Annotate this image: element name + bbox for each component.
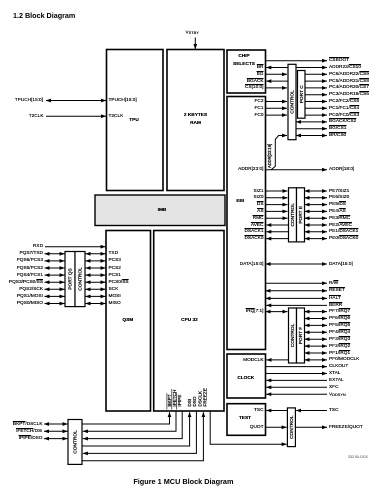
block label CHIP — [238, 54, 249, 59]
wire VDDSYN — [266, 393, 327, 395]
wire DSACK0 into EBI — [266, 238, 288, 240]
wire PC0/FC0/CS3 — [305, 114, 327, 116]
port QS control box — [75, 252, 85, 307]
svg-text:FREEZE: FREEZE — [203, 388, 208, 407]
pin SCK internal — [109, 287, 119, 292]
svg-text:IPIPE: IPIPE — [177, 395, 182, 407]
wire PC6/ADDR22/CS9 — [305, 73, 327, 75]
pin IRQ[7:1] — [246, 309, 264, 314]
pin FC2 — [255, 99, 264, 104]
wire MISO port-QSM — [86, 303, 106, 305]
wire TSC into test block — [266, 410, 287, 412]
svg-text:CONTROL: CONTROL — [290, 323, 296, 347]
svg-text:CONTROL: CONTROL — [78, 267, 84, 291]
wire PF4/IRQ4 — [305, 331, 328, 333]
wire VSTBY to RAM — [194, 38, 196, 50]
svg-text:DSCLK: DSCLK — [197, 390, 202, 407]
wire PC4/ADDR20/CS7 — [305, 87, 327, 89]
wire R/W — [266, 282, 328, 284]
wire FC0 to control — [266, 114, 288, 116]
port C control box — [288, 64, 296, 139]
pin PQS5/PCS2 external — [17, 266, 43, 271]
pin T2CLK internal — [109, 114, 124, 119]
pin BR/CS0 — [329, 133, 346, 138]
wire IPIPE — [83, 411, 182, 439]
overbar IPIPE pin — [176, 392, 178, 409]
wire SIZ1 to port E control — [266, 190, 288, 192]
pin ADDR[18:0] — [329, 167, 354, 172]
drawing id 332 BLOCK — [348, 455, 368, 459]
wire PC2/FC2/CS5 — [305, 101, 327, 103]
wire QUOT to control — [266, 426, 287, 428]
pin BG/CS1 — [329, 126, 346, 131]
pin PE7/SIZ1 — [329, 189, 349, 194]
pin EXTAL — [329, 378, 344, 383]
pin PC3/ADDR19/CS6 — [329, 92, 369, 97]
RAM block — [167, 50, 224, 191]
wire MODCLK into clock — [267, 359, 289, 361]
pin RXD — [33, 244, 43, 249]
svg-text:CONTROL: CONTROL — [290, 203, 296, 227]
pin CLKOUT — [329, 364, 348, 369]
pin DATA[15:0] external — [329, 262, 353, 267]
block label RAM — [190, 121, 201, 126]
pin QUOT internal — [250, 425, 264, 430]
pin BGACK/CS2 — [329, 119, 356, 124]
pin SIZ0 — [253, 195, 263, 200]
pin PE2/AVEC — [329, 223, 352, 228]
block label EBI — [236, 199, 244, 204]
title 1.2 Block Diagram — [13, 12, 75, 20]
wire EXTAL — [266, 379, 327, 381]
pin PF1/IRQ1 — [329, 351, 350, 356]
svg-text:PORT C: PORT C — [299, 85, 305, 103]
pin BKPT/DSCLK external — [13, 422, 43, 427]
pin PC6/ADDR22/CS9 — [329, 72, 369, 77]
wire SIZ0 to port E control — [266, 197, 288, 199]
wire PF1/IRQ1 — [305, 352, 328, 354]
pin PQS7/TXD external — [20, 251, 44, 256]
pin R/W — [329, 281, 338, 286]
block label IMB — [158, 208, 167, 213]
wire PCS3 pad-port — [45, 260, 65, 262]
wire SCK pad-port — [45, 288, 65, 290]
pin CSBOOT — [329, 58, 349, 63]
wire PC3/ADDR19/CS6 — [305, 94, 327, 96]
wire RMC to port E control — [266, 217, 288, 219]
pin PF2/IRQ2 — [329, 344, 350, 349]
pin PF0/MODCLK — [329, 357, 359, 362]
wire PE0/DSACK0 — [305, 238, 328, 240]
svg-text:CONTROL: CONTROL — [289, 415, 295, 439]
pin VSTBY — [186, 30, 199, 35]
wire FREEZE to test control — [210, 411, 286, 444]
pin PCS3 internal — [109, 258, 121, 263]
pin PE3/RMC — [329, 216, 350, 221]
wire ADDR[18:0] — [266, 169, 328, 171]
QSM block — [106, 231, 151, 412]
pin TPUCH[15:0] internal — [109, 98, 137, 103]
pin PE0/DSACK0 — [329, 236, 358, 241]
pin VDDSYN — [329, 392, 346, 397]
wire DS to port E control — [266, 204, 288, 206]
wire IFETCH/DSI — [44, 430, 68, 432]
wire DATA[15:0] — [266, 263, 328, 265]
pin PC5/ADDR21/CS8 — [329, 79, 369, 84]
pin TXD internal — [109, 251, 119, 256]
wire TXD pad-port — [45, 253, 65, 255]
PORT F box — [297, 308, 305, 363]
block label TPU — [129, 118, 139, 123]
test control box — [287, 408, 295, 447]
wire RESET — [266, 290, 328, 292]
wire ADDR23/CS10 — [296, 67, 327, 69]
wire DSI — [82, 412, 190, 446]
wire PF0/MODCLK — [305, 359, 328, 361]
wire CSBOOT — [266, 60, 328, 62]
wire ADDR[23:19] bus to port C control — [271, 136, 287, 170]
wire TPUCH[15:0] — [46, 100, 106, 102]
pin PE5/DS — [329, 202, 346, 207]
wire PE6/SIZ0 — [305, 197, 328, 199]
wire PC5/ADDR21/CS8 — [305, 80, 327, 82]
wire PC1/FC1/CS4 — [305, 107, 327, 109]
pin PQS6/PCS3 external — [17, 258, 43, 263]
pin BERR — [329, 303, 342, 308]
pin RMC — [253, 216, 264, 221]
pin MODCLK internal — [243, 358, 263, 363]
pin PQS1/MOSI external — [17, 294, 43, 299]
wire CS[10:0] to control — [266, 87, 288, 89]
wire IRQ[7:1] to port F control — [266, 311, 288, 313]
pin BR — [257, 65, 264, 70]
pin PF5/IRQ5 — [329, 323, 350, 328]
IMB bus bar — [95, 195, 225, 226]
wire PCS2 pad-port — [45, 267, 65, 269]
pin T2CLK external — [29, 114, 44, 119]
wire BG to control — [266, 73, 288, 75]
pin DS — [257, 202, 264, 207]
pin PF6/IRQ6 — [329, 316, 350, 321]
wire PE7/SIZ1 — [305, 190, 328, 192]
pin PE1/DSACK1 — [329, 229, 358, 234]
block label CLOCK — [237, 376, 254, 381]
pin PE6/SIZ0 — [329, 195, 349, 200]
pin MOSI internal — [109, 294, 121, 299]
wire FREEZE/QUOT — [295, 426, 327, 428]
pin DATA[15:0] internal — [240, 262, 264, 267]
wire IFETCH — [83, 411, 176, 431]
pin ADDR23/CS10 — [329, 65, 361, 70]
port F control box — [289, 308, 297, 363]
wire SCK port-QSM — [86, 288, 106, 290]
block label SELECTS — [233, 62, 255, 67]
wire FC1 to control — [266, 107, 288, 109]
pin PQS4/PCS1 external — [17, 273, 43, 278]
pin PCS2 internal — [109, 266, 121, 271]
wire BKPT/DSCLK — [44, 423, 68, 425]
svg-text:CONTROL: CONTROL — [73, 430, 79, 454]
wire XFC — [266, 386, 327, 388]
PORT C box — [298, 71, 306, 119]
wire PF3/IRQ3 — [305, 338, 328, 340]
overbar IFETCH pin — [171, 389, 173, 410]
BDM control box — [68, 420, 82, 465]
wire IPIPE/DSO — [44, 438, 68, 440]
wire PCS2 port-QSM — [86, 267, 106, 269]
svg-text:ADDR[23:19]: ADDR[23:19] — [267, 144, 272, 168]
wire PCS0/SS port-QSM — [86, 281, 106, 283]
pin PF3/IRQ3 — [329, 337, 350, 342]
CPU32 block — [154, 231, 224, 412]
pin MISO internal — [109, 301, 121, 306]
pin DSACK1 — [244, 229, 263, 234]
pin XFC — [329, 385, 339, 390]
svg-text:PORT F: PORT F — [298, 327, 304, 344]
TPU block — [107, 50, 164, 191]
wire PF5/IRQ5 — [305, 324, 328, 326]
wire MOSI port-QSM — [86, 295, 106, 297]
pin AVEC — [251, 223, 264, 228]
wire AS to port E control — [266, 210, 288, 212]
pin TPUCH[15:0] external — [15, 98, 43, 103]
wire BGACK into chip selects — [266, 80, 288, 82]
wire PCS3 port-QSM — [86, 260, 106, 262]
pin PQS3/PCS0/SS external — [9, 280, 43, 285]
wire PE4/AS — [305, 210, 328, 212]
wire BR/CS0 — [296, 135, 327, 137]
pin DSACK0 — [244, 236, 263, 241]
wire DSACK1 into EBI — [266, 231, 288, 233]
wire AVEC into EBI — [266, 224, 288, 226]
pin FREEZE/QUOT — [329, 425, 363, 430]
pin BGACK — [247, 79, 264, 84]
wire MISO pad-port — [45, 303, 65, 305]
wire RXD — [45, 246, 106, 248]
pin PF4/IRQ4 — [329, 330, 350, 335]
wire PCS1 pad-port — [45, 274, 65, 276]
pin HALT — [329, 296, 341, 301]
wire BG/CS1 — [296, 128, 327, 130]
wire PF2/IRQ2 — [305, 345, 328, 347]
pin PC4/ADDR20/CS7 — [329, 85, 369, 90]
wire BKPT — [82, 412, 170, 424]
wire PE5/DS — [305, 204, 328, 206]
pin TSC internal — [254, 408, 264, 413]
wire TXD port-QSM — [86, 253, 106, 255]
wire PF7/IRQ7 — [305, 311, 328, 313]
wire PCS0/SS pad-port — [45, 281, 65, 283]
block label 2 KBYTES — [184, 113, 207, 118]
EBI block — [227, 97, 266, 350]
pin PCS0/SS internal — [109, 280, 129, 285]
wire CLKOUT — [266, 366, 328, 368]
port E control box — [289, 188, 297, 242]
wire DSCLK — [82, 412, 203, 461]
pin PF7/IRQ7 — [329, 309, 350, 314]
wire BGACK/CS2 — [296, 121, 327, 123]
pin PE4/AS — [329, 209, 346, 214]
PORT QS box — [65, 252, 75, 307]
CHIP SELECTS block — [227, 50, 266, 93]
TEST block — [227, 404, 266, 436]
pin PQS2/SCK external — [19, 287, 43, 292]
pin BG — [257, 72, 264, 77]
block label QSM — [122, 318, 133, 323]
pin AS — [257, 209, 263, 214]
CLOCK block — [227, 354, 266, 398]
overbar BKPT pin — [166, 393, 168, 409]
pin IFETCH/DSI external — [16, 429, 42, 434]
pin PC2/FC2/CS5 — [329, 99, 359, 104]
wire BR into chip selects — [266, 67, 288, 69]
wire T2CLK — [46, 115, 106, 117]
wire PE1/DSACK1 — [305, 231, 328, 233]
wire FC2 to control — [266, 101, 288, 103]
svg-text:PORT E: PORT E — [298, 206, 304, 224]
block label CPU 32 — [181, 318, 198, 323]
wire TSC external — [296, 410, 327, 412]
svg-text:CONTROL: CONTROL — [290, 90, 296, 114]
pin FC0 — [255, 113, 264, 118]
wire PF6/IRQ6 — [305, 318, 328, 320]
pin RESET — [329, 288, 345, 293]
pin PC0/FC0/CS3 — [329, 113, 359, 118]
pin PCS1 internal — [109, 273, 121, 278]
pin XTAL — [329, 371, 341, 376]
wire PCS1 port-QSM — [86, 274, 106, 276]
wire PE2/AVEC — [305, 224, 328, 226]
svg-text:PORT QS: PORT QS — [68, 268, 74, 289]
wire MOSI pad-port — [45, 295, 65, 297]
caption Figure 1 MCU Block Diagram — [133, 478, 233, 486]
wire HALT — [266, 297, 328, 299]
wire XTAL — [266, 373, 328, 375]
pin TSC external — [329, 408, 339, 413]
pin IPIPE/DSO external — [19, 436, 43, 441]
pin ADDR[23:0] — [238, 167, 263, 172]
wire DSO — [83, 411, 196, 453]
wire PE3/RMC — [305, 217, 328, 219]
PORT E box — [297, 188, 305, 242]
wire BERR — [266, 304, 327, 306]
pin FC1 — [255, 106, 264, 111]
pin CS[10:0] — [245, 85, 263, 90]
pin PQS0/MISO external — [17, 301, 43, 306]
block label TEST — [239, 416, 251, 421]
pin SIZ1 — [253, 189, 263, 194]
pin PC1/FC1/CS4 — [329, 106, 359, 111]
